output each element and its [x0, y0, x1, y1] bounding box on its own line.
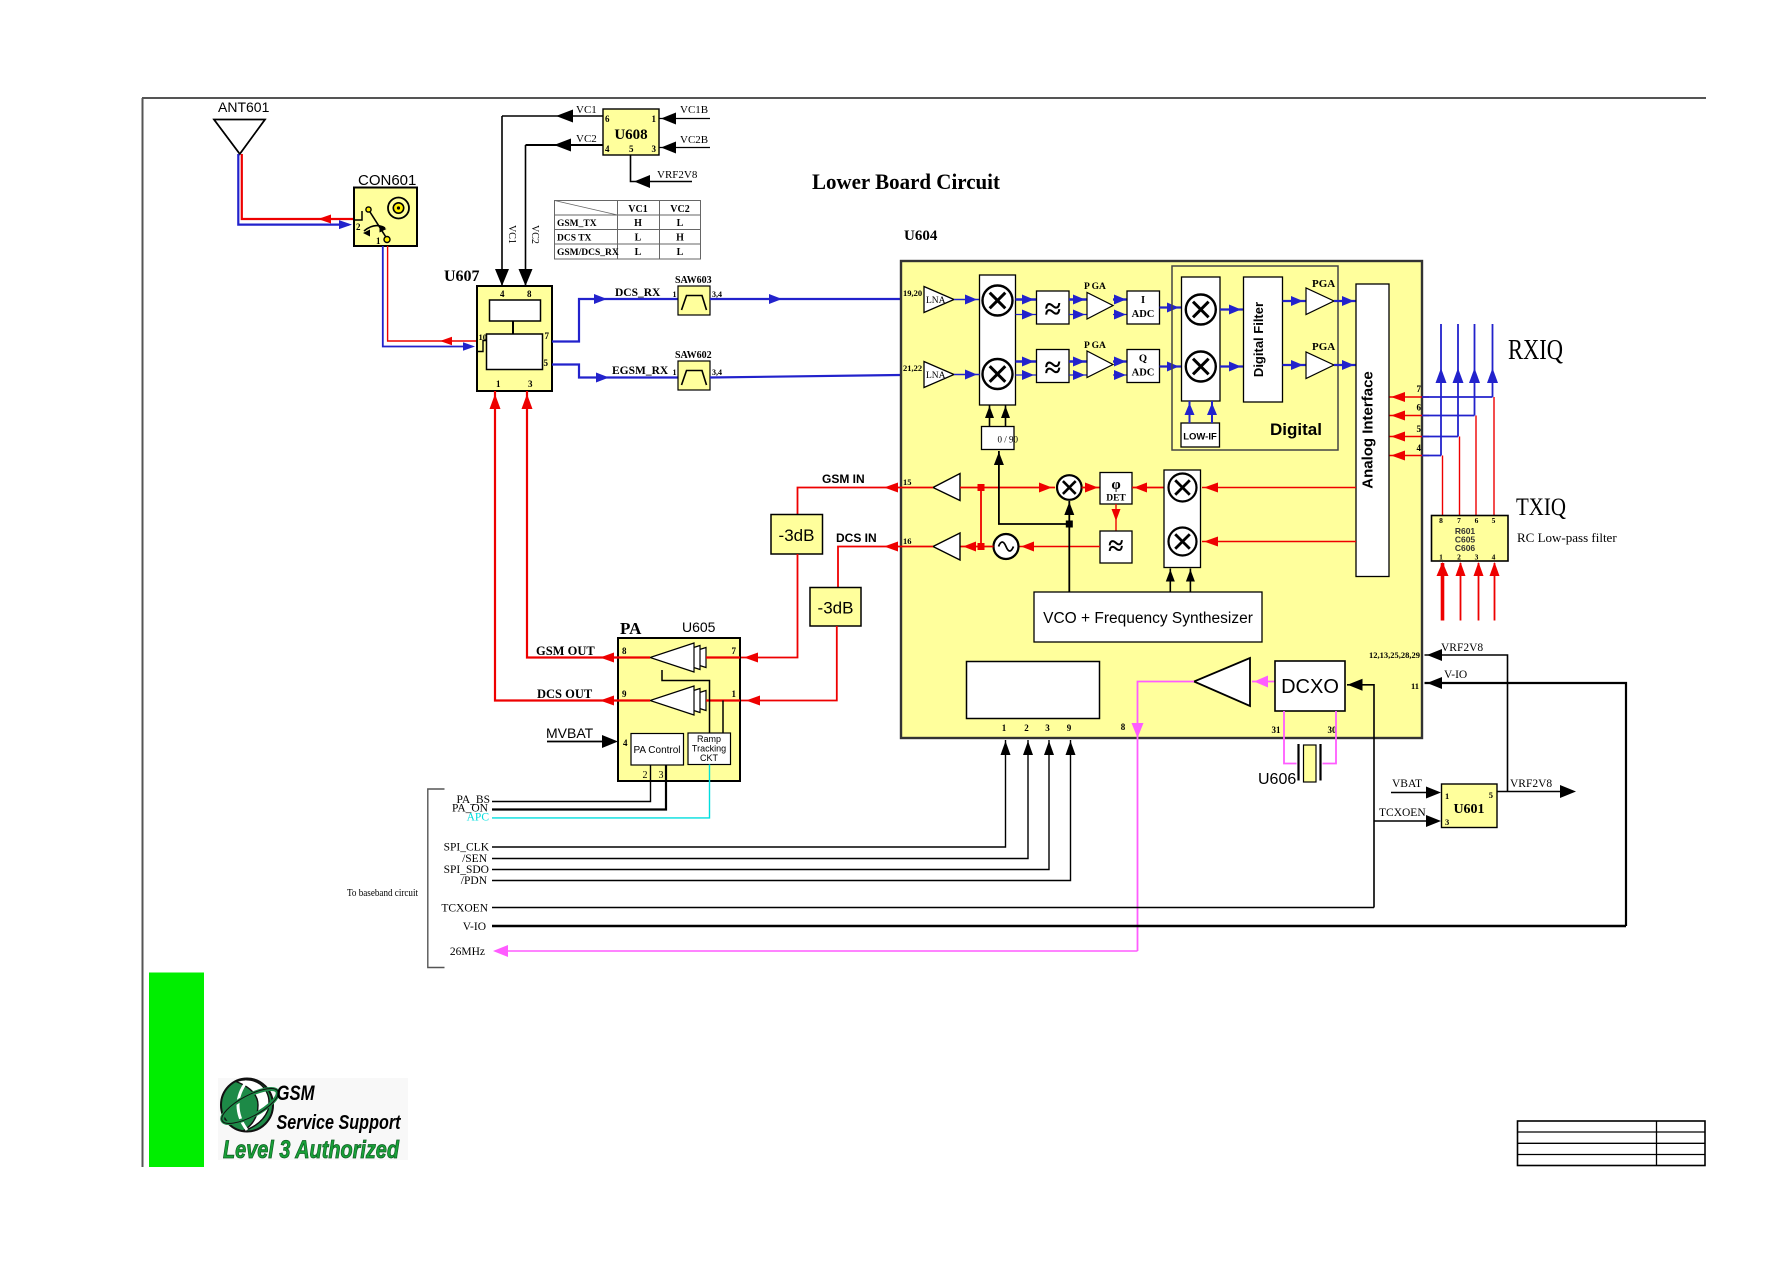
wire VC2B into U608 pin3	[659, 147, 710, 149]
svg-text:VC2B: VC2B	[680, 134, 708, 146]
svg-text:3: 3	[652, 144, 657, 154]
svg-text:PA Control: PA Control	[633, 745, 680, 756]
wire digital filter to PGA3	[1283, 300, 1307, 302]
truth table VC1/VC2	[555, 201, 701, 260]
wire TXIQ vertical 8	[1493, 397, 1495, 516]
svg-text:8: 8	[622, 646, 627, 656]
wire VRF2V8 from U608 pin5	[631, 155, 693, 182]
wire antenna to CON601 blue	[238, 154, 349, 225]
wire buffer to TX mixer	[960, 487, 1055, 489]
wire PA_BS to PA pin2	[492, 765, 651, 802]
wire /PDN to U604 pin9	[492, 740, 1071, 881]
wire buffer to pin16	[901, 546, 933, 548]
IF filter I	[1037, 291, 1070, 324]
wire VC1 from U608 pin6	[502, 115, 603, 117]
svg-text:VC1B: VC1B	[680, 104, 708, 116]
oscillator VCO symbol	[994, 534, 1019, 559]
svg-text:6: 6	[1417, 403, 1422, 413]
wire TCXOEN baseband	[492, 907, 1374, 909]
wire RXIQ row 6 red	[1390, 415, 1430, 417]
wire analog interface to TX mixer Q	[1202, 541, 1356, 543]
svg-text:Service Support: Service Support	[277, 1112, 402, 1134]
wire TXIQ input 2	[1460, 563, 1462, 621]
switch pin 1 contact	[384, 237, 390, 243]
wire 26MHz clock	[506, 950, 1138, 952]
svg-text:≈: ≈	[1108, 531, 1123, 562]
arrow red toward CON601	[440, 337, 452, 345]
svg-text:TCXOEN: TCXOEN	[441, 903, 488, 915]
arrow blue into CON601	[339, 220, 352, 229]
wire antenna to CON601 red	[242, 154, 355, 219]
converter Q ADC	[1127, 350, 1160, 383]
wire RXIQ row 4 blue	[1422, 455, 1441, 457]
svg-text:GSM OUT: GSM OUT	[536, 644, 595, 658]
svg-text:GSM IN: GSM IN	[822, 472, 865, 486]
wire RXIQ row 7 blue	[1422, 396, 1493, 398]
svg-text:9: 9	[1067, 723, 1072, 733]
svg-text:19,20: 19,20	[903, 288, 922, 298]
svg-text:8: 8	[1121, 722, 1126, 732]
wire CON601 to U607 red	[388, 246, 477, 341]
svg-text:CKT: CKT	[700, 753, 719, 763]
svg-text:Digital Filter: Digital Filter	[1251, 302, 1266, 377]
wire VCO to TX mixer a	[1169, 569, 1171, 593]
svg-text:LNA: LNA	[926, 296, 946, 306]
wire LOW-IF to mixer 1	[1189, 401, 1191, 423]
svg-text:2: 2	[356, 222, 361, 232]
block Analog Interface	[1356, 284, 1389, 577]
svg-text:4: 4	[605, 144, 610, 154]
mixer TX offset	[1057, 475, 1082, 500]
arrow blue into U607	[463, 342, 475, 350]
svg-text:DCS TX: DCS TX	[557, 234, 592, 244]
svg-text:DCS IN: DCS IN	[836, 531, 877, 545]
wire 0/90 to mixer b	[1005, 405, 1007, 427]
svg-text:LOW-IF: LOW-IF	[1183, 432, 1217, 443]
svg-text:VC2: VC2	[576, 133, 597, 145]
svg-text:L: L	[635, 233, 642, 244]
wire RXIQ row 5 red	[1390, 436, 1430, 438]
wire DCXO pin30 to crystal	[1323, 711, 1337, 764]
svg-text:3: 3	[1445, 817, 1449, 827]
wire MVBAT into PA pin4	[547, 741, 603, 743]
svg-text:7: 7	[1457, 516, 1461, 525]
wire RXIQ vertical 7	[1492, 324, 1494, 397]
amplifier LNA2	[924, 362, 954, 388]
svg-text:6: 6	[605, 114, 610, 124]
amplifier PGA Q	[1087, 351, 1113, 378]
block LOW-IF	[1181, 423, 1220, 447]
wire phase det to loop filter	[1115, 504, 1117, 531]
wire PA_ON to PA pin3	[492, 765, 666, 810]
svg-text:4: 4	[500, 289, 505, 299]
svg-text:3: 3	[659, 770, 664, 781]
svg-text:U606: U606	[1258, 771, 1296, 788]
svg-text:PGA: PGA	[1312, 278, 1335, 290]
attenuator -3dB GSM body	[771, 515, 823, 555]
wire RXIQ row 6 blue	[1422, 415, 1475, 417]
mixer TX I	[1169, 474, 1197, 502]
wire TXIQ input 3	[1478, 563, 1480, 621]
svg-text:Analog Interface: Analog Interface	[1360, 371, 1377, 489]
svg-text:≈: ≈	[1044, 352, 1060, 385]
wire Q ADC to digital mixer	[1160, 365, 1182, 367]
svg-text:4: 4	[623, 738, 628, 748]
wire EGSM_RX from U607 pin5	[552, 365, 678, 378]
wire analog interface to TX mixer I	[1202, 487, 1356, 489]
wire GSM IN out of pin15	[798, 488, 902, 515]
oscillator DCXO body	[1275, 661, 1345, 711]
wire TXIQ input 4	[1494, 563, 1496, 621]
wire 0/90 to mixer a	[989, 405, 991, 427]
svg-text:PGA: PGA	[1312, 341, 1335, 353]
svg-text:DCS OUT: DCS OUT	[537, 687, 593, 701]
svg-text:1: 1	[732, 689, 737, 699]
attenuator -3dB DCS body	[810, 588, 861, 627]
wire RXIQ row 5 blue	[1422, 436, 1458, 438]
wire VBAT into U601	[1391, 792, 1427, 794]
switch arc arrow	[364, 226, 385, 231]
svg-text:7: 7	[545, 331, 550, 341]
RX mixer box	[980, 275, 1016, 405]
SAW filter SAW603 body	[678, 286, 710, 315]
wire DCS amp to pin9	[618, 699, 650, 701]
svg-text:TCXOEN: TCXOEN	[1379, 807, 1426, 819]
connector CON601 body	[354, 188, 417, 247]
svg-text:7: 7	[1417, 384, 1422, 394]
svg-text:Q: Q	[1139, 354, 1147, 365]
svg-text:10: 10	[479, 332, 488, 342]
wire SPI_SDO to U604 pin3	[492, 740, 1049, 870]
svg-text:1: 1	[652, 114, 657, 124]
wire PGA3 to analog interface	[1334, 300, 1356, 302]
svg-text:I: I	[1141, 295, 1145, 306]
svg-text:/PDN: /PDN	[461, 875, 488, 887]
SAW603 bandpass symbol	[682, 296, 707, 311]
wire -3dB DCS to PA pin1	[740, 626, 837, 701]
SAW602 bandpass symbol	[682, 371, 707, 386]
mixer digital Q	[1186, 352, 1216, 382]
wire mixer to filter Q pair	[1016, 360, 1037, 362]
svg-text:0 / 90: 0 / 90	[998, 435, 1019, 445]
block PA Control	[631, 734, 684, 766]
svg-text:U601: U601	[1453, 802, 1484, 817]
block 0/90 phase	[982, 427, 1015, 450]
block Digital Filter	[1244, 277, 1283, 402]
svg-text:≈: ≈	[1044, 293, 1060, 326]
svg-text:ADC: ADC	[1132, 309, 1155, 320]
svg-text:V-IO: V-IO	[1444, 669, 1467, 681]
svg-text:CON601: CON601	[358, 172, 416, 189]
svg-text:P GA: P GA	[1084, 282, 1106, 292]
power amplifier U605 body	[618, 638, 740, 781]
svg-text:MVBAT: MVBAT	[546, 725, 594, 741]
svg-text:L: L	[635, 247, 642, 258]
wire RXIQ row 4 red	[1390, 455, 1430, 457]
svg-text:LNA: LNA	[926, 371, 946, 381]
svg-text:V-IO: V-IO	[463, 921, 486, 933]
svg-text:-3dB: -3dB	[818, 599, 854, 618]
svg-text:2: 2	[1024, 723, 1029, 733]
svg-text:Digital: Digital	[1270, 420, 1322, 439]
wire RXIQ vertical 4	[1440, 324, 1442, 456]
svg-text:Tracking: Tracking	[692, 744, 726, 754]
amplifier GSM PA stages	[674, 648, 706, 668]
wire TXIQ vertical 7	[1475, 416, 1477, 516]
regulator U601 body	[1442, 784, 1498, 828]
svg-text:VC2: VC2	[670, 204, 689, 215]
baseband bracket	[428, 789, 445, 968]
svg-text:SAW603: SAW603	[675, 275, 712, 286]
wire VC1B into U608 pin1	[659, 118, 710, 120]
wire CON601 to U607 blue	[383, 246, 471, 347]
wire LNA2 to mixer	[954, 374, 980, 376]
U607 pin10 elbow	[477, 341, 487, 352]
U607 inner box bottom	[487, 334, 543, 370]
svg-text:1: 1	[673, 368, 677, 377]
wire digital mixer to digital filter Q	[1220, 365, 1244, 367]
wire PGA to I ADC pair	[1113, 298, 1127, 300]
svg-text:4: 4	[1492, 553, 1496, 562]
svg-text:To baseband circuit: To baseband circuit	[347, 887, 418, 899]
arrow pin8 clock out	[1132, 723, 1144, 738]
U607 inner link	[512, 321, 514, 334]
svg-text:RXIQ: RXIQ	[1508, 335, 1563, 366]
svg-text:SPI_CLK: SPI_CLK	[444, 842, 490, 854]
svg-text:TXIQ: TXIQ	[1516, 494, 1566, 521]
U607 inner box top	[490, 300, 541, 321]
wire VCO to TX mixer b	[1189, 569, 1191, 593]
svg-text:1: 1	[1445, 791, 1449, 801]
svg-text:L: L	[677, 247, 684, 258]
svg-text:3,4: 3,4	[712, 368, 722, 377]
wire digital mixer to digital filter I	[1220, 308, 1244, 310]
wire SPI_CLK to U604 pin1	[492, 740, 1006, 847]
wire /SEN to U604 pin2	[492, 740, 1028, 859]
amplifier DCS PA stages	[674, 691, 706, 711]
svg-text:ADC: ADC	[1132, 368, 1155, 379]
wire TXIQ input 1	[1441, 563, 1445, 621]
wire RXIQ row 7 red	[1390, 396, 1430, 398]
svg-text:φ: φ	[1111, 477, 1120, 493]
svg-text:5: 5	[629, 144, 634, 154]
wire I ADC to digital mixer	[1160, 306, 1182, 308]
buffer amp GSM TX	[933, 474, 960, 501]
wire clock buffer to pin8	[1138, 682, 1195, 952]
wire VC2 vertical to U607	[525, 145, 527, 286]
digital mixer box	[1182, 277, 1221, 401]
svg-text:P GA: P GA	[1084, 341, 1106, 351]
svg-text:5: 5	[1489, 790, 1493, 800]
transceiver U604 body	[901, 261, 1422, 738]
wire -3dB GSM to PA pin7	[740, 554, 798, 658]
wire LNA1 to mixer	[954, 299, 980, 301]
wire GSM amp to ramp tracking	[662, 670, 710, 733]
SAW filter SAW602 body	[678, 361, 710, 390]
phase detector box	[1100, 473, 1132, 505]
wire filter to PGA Q pair	[1069, 360, 1087, 362]
svg-text:-3dB: -3dB	[779, 526, 815, 545]
wire DCS IN out of pin16	[838, 547, 901, 588]
wire V-IO baseband	[492, 925, 1626, 928]
svg-text:8: 8	[1439, 516, 1443, 525]
IC U608 body	[603, 109, 659, 155]
wire DCXO pin31 to crystal	[1284, 711, 1297, 764]
svg-text:VRF2V8: VRF2V8	[657, 169, 698, 181]
svg-text:8: 8	[527, 289, 532, 299]
wire VCO LO to 0/90	[999, 451, 1069, 524]
converter I ADC	[1127, 291, 1160, 324]
wire VC2 from U608 pin4	[526, 144, 604, 146]
digital sub-block outline	[1172, 266, 1338, 450]
junction TX row1	[978, 484, 985, 491]
wire RXIQ vertical 6	[1474, 324, 1476, 416]
wire loop mixer to phase det	[1132, 487, 1164, 489]
svg-text:1: 1	[376, 236, 381, 246]
svg-text:VC1: VC1	[628, 204, 647, 215]
page border top	[142, 97, 1706, 99]
svg-text:VC2: VC2	[529, 225, 540, 244]
svg-text:3: 3	[1475, 553, 1479, 562]
wire U601 VRF2V8 output	[1497, 791, 1560, 793]
wire filter to PGA I pair	[1069, 298, 1087, 300]
wire pin15 to buffer	[901, 487, 933, 489]
loop filter box	[1100, 531, 1132, 563]
svg-text:U605: U605	[682, 619, 716, 635]
wire PGA to Q ADC pair	[1113, 360, 1127, 362]
wire VRF2V8 into U604	[1425, 655, 1508, 792]
crystal U606 right plate	[1319, 744, 1321, 781]
wire GSM amp to pin8	[618, 656, 650, 658]
svg-text:Lower Board Circuit: Lower Board Circuit	[812, 169, 1001, 194]
svg-text:5: 5	[1492, 516, 1496, 525]
switch lever	[370, 212, 387, 238]
wire pin7 to GSM amp	[706, 656, 740, 658]
svg-text:H: H	[676, 233, 684, 244]
clock buffer triangle	[1194, 658, 1250, 706]
wire TX mixer to phase det	[1082, 487, 1100, 489]
svg-text:SAW602: SAW602	[675, 350, 712, 361]
svg-text:U604: U604	[904, 228, 938, 244]
TX quad mixer box	[1164, 470, 1201, 568]
crystal U606 left plate	[1297, 744, 1299, 781]
wire TX junction vertical	[980, 488, 982, 547]
svg-text:GSM_TX: GSM_TX	[557, 219, 597, 229]
arrow TCXOEN into DCXO	[1348, 679, 1363, 691]
svg-text:2: 2	[1457, 553, 1461, 562]
svg-text:VC1: VC1	[506, 225, 517, 244]
wire VC1 vertical to U607	[501, 116, 503, 286]
wire oscillator to buffer DCS	[960, 546, 994, 548]
svg-text:16: 16	[903, 536, 912, 546]
svg-text:1: 1	[1002, 723, 1007, 733]
amplifier PGA3	[1306, 288, 1334, 315]
antenna ANT601 symbol	[214, 120, 265, 155]
switch contact circle	[366, 207, 371, 212]
svg-text:RC Low-pass filter: RC Low-pass filter	[1517, 530, 1617, 545]
svg-text:VCO + Frequency Synthesizer: VCO + Frequency Synthesizer	[1043, 610, 1253, 627]
logo background	[218, 1078, 408, 1160]
svg-text:15: 15	[903, 477, 912, 487]
svg-text:21,22: 21,22	[903, 363, 922, 373]
page border left	[142, 98, 144, 1167]
block VCO + Frequency Synthesizer	[1034, 592, 1262, 642]
svg-text:3: 3	[1045, 723, 1050, 733]
svg-text:11: 11	[1411, 681, 1419, 691]
svg-text:3,4: 3,4	[712, 290, 722, 299]
wire APC to ramp tracking	[492, 765, 710, 818]
wire DCS OUT PA to U607 pin1	[495, 391, 618, 701]
svg-text:1: 1	[496, 379, 501, 389]
svg-text:VC1: VC1	[576, 104, 597, 116]
svg-text:1: 1	[1439, 553, 1443, 562]
svg-text:7: 7	[732, 646, 737, 656]
svg-text:C606: C606	[1455, 543, 1476, 553]
crystal U606 body	[1304, 745, 1317, 782]
switch pin 2 stub	[354, 211, 362, 220]
svg-text:1: 1	[673, 290, 677, 299]
svg-text:DCXO: DCXO	[1281, 676, 1339, 698]
svg-text:5: 5	[544, 358, 549, 368]
wire TCXOEN into U601 pin3	[1374, 820, 1428, 822]
block Ramp Tracking CKT	[688, 733, 731, 765]
svg-text:VRF2V8: VRF2V8	[1441, 642, 1483, 654]
wire TXIQ vertical 6	[1459, 437, 1461, 516]
svg-text:U607: U607	[444, 268, 480, 285]
wire pin1 to DCS amp	[706, 699, 740, 701]
mixer TX Q	[1169, 528, 1197, 556]
svg-text:9: 9	[622, 689, 627, 699]
wire DCXO to clock buffer	[1252, 681, 1275, 683]
arrow red toward antenna	[318, 215, 331, 224]
RC low-pass filter block R601 C605 C606	[1432, 516, 1509, 562]
svg-text:Ramp: Ramp	[697, 734, 721, 744]
mixer RX Q	[983, 359, 1013, 389]
amplifier PGA4	[1306, 352, 1334, 379]
wire LOW-IF to mixer 2	[1211, 401, 1213, 423]
svg-text:2: 2	[643, 770, 648, 781]
svg-text:12,13,25,28,29: 12,13,25,28,29	[1369, 650, 1420, 660]
svg-text:VBAT: VBAT	[1392, 778, 1422, 790]
wire mixer to filter I pair	[1016, 298, 1037, 300]
coax symbol in CON601	[388, 198, 409, 219]
green margin bar	[149, 973, 204, 1168]
wire DCS_RX from U607 pin7	[552, 299, 678, 342]
svg-text:GSM/DCS_RX: GSM/DCS_RX	[557, 248, 619, 258]
svg-text:5: 5	[1417, 424, 1422, 434]
wire TXIQ vertical 5	[1442, 456, 1444, 516]
wire loop filter to oscillator	[1019, 546, 1101, 548]
wire SAW602 to U604	[710, 375, 901, 378]
wire TCXOEN vertical	[1347, 685, 1374, 908]
svg-text:H: H	[634, 218, 642, 229]
logo globe	[217, 1079, 282, 1132]
svg-text:EGSM_RX: EGSM_RX	[612, 365, 669, 377]
svg-text:26MHz: 26MHz	[450, 946, 485, 958]
svg-text:DET: DET	[1106, 494, 1126, 504]
wire V-IO into U604 pin11	[1425, 683, 1627, 926]
svg-text:ANT601: ANT601	[218, 99, 270, 115]
wire GSM OUT PA to U607 pin3	[527, 391, 618, 658]
junction TX row2	[978, 543, 985, 550]
svg-text:3: 3	[528, 379, 533, 389]
mixer RX I	[983, 286, 1013, 316]
buffer amp DCS TX	[933, 533, 960, 560]
amplifier PGA I	[1087, 293, 1113, 320]
svg-text:PA: PA	[620, 619, 642, 638]
svg-text:L: L	[677, 218, 684, 229]
svg-text:VRF2V8: VRF2V8	[1510, 778, 1552, 790]
